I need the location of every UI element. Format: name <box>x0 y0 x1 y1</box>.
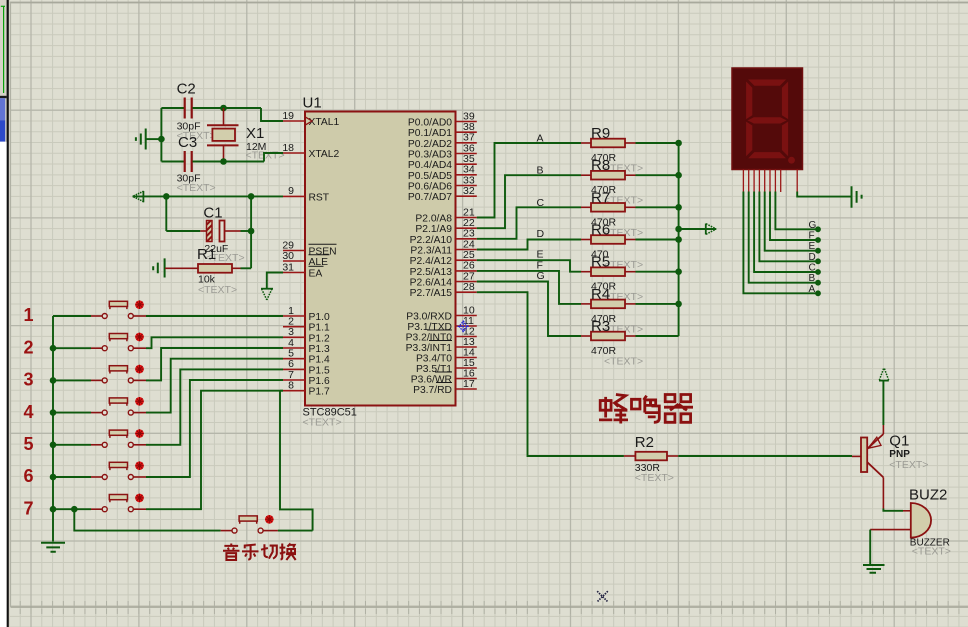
resistor R4 right lead <box>625 303 636 305</box>
svg-text:P3.6/WR: P3.6/WR <box>411 375 452 386</box>
pin 33 P0.6/AD6 stub <box>456 185 477 187</box>
wire bus to button 4 <box>53 412 91 414</box>
pin 16 overline <box>435 371 452 373</box>
sheet border ticks <box>20 601 959 614</box>
svg-text:7: 7 <box>23 498 33 518</box>
wire segment G from pin 27 <box>477 282 581 337</box>
button 5 left lead <box>91 444 102 446</box>
wire gnd to C2/C3 node <box>147 138 162 140</box>
push button SW3 actuator <box>109 366 127 371</box>
svg-text:9: 9 <box>288 185 294 197</box>
svg-text:P0.3/AD3: P0.3/AD3 <box>408 150 452 161</box>
wire button7 to pin7 <box>146 391 283 510</box>
svg-text:A: A <box>537 133 544 145</box>
pin 14 P3.4/T0 stub <box>456 357 477 359</box>
pin 26 P2.5/A13 stub <box>456 270 477 272</box>
svg-text:C1: C1 <box>203 205 222 222</box>
buzzer BUZ2 bottom lead <box>870 529 911 531</box>
pin 22 P2.1/A9 stub <box>456 227 477 229</box>
wire down to C1 left <box>165 196 167 231</box>
svg-text:XTAL2: XTAL2 <box>309 149 340 160</box>
pin 15 P3.5/T1 stub <box>456 367 477 369</box>
push button SW7 contacts <box>102 507 107 512</box>
wire pin28 to R2 <box>477 292 624 456</box>
svg-text:P3.5/T1: P3.5/T1 <box>416 364 452 375</box>
ui white area <box>0 142 7 627</box>
svg-text:P2.4/A12: P2.4/A12 <box>410 256 453 267</box>
7seg segment d <box>747 152 787 159</box>
7seg segment f <box>746 81 753 120</box>
svg-text:28: 28 <box>463 281 475 293</box>
ground (R1 left) <box>153 258 164 277</box>
crystal X1 top plate <box>207 124 239 126</box>
wire button1 to pin1 <box>146 315 283 317</box>
capacitor C1 plate- <box>220 221 225 242</box>
push button SW-music interactive marker <box>265 515 274 524</box>
svg-text:P3.1/TXD: P3.1/TXD <box>407 322 452 333</box>
wire segment B from pin 22 <box>477 175 581 228</box>
7seg pin 2 wire <box>749 192 818 283</box>
wire R9 to bus <box>636 142 679 144</box>
resistor R6 body <box>591 235 625 244</box>
wire bus to button 7 <box>53 508 91 510</box>
push button SW3 contacts <box>102 378 107 383</box>
pin 9 RST stub <box>283 195 305 197</box>
pin 6 P1.5 stub <box>283 368 305 370</box>
svg-text:D: D <box>537 228 545 240</box>
ui overview green box top <box>1 5 5 7</box>
pin 30 ALE stub <box>283 260 305 262</box>
pin 21 P2.0/A8 stub <box>456 217 477 219</box>
svg-text:31: 31 <box>282 261 294 273</box>
ground (button bus) <box>41 543 65 552</box>
button 3 right lead <box>134 379 147 381</box>
svg-text:P2.2/A10: P2.2/A10 <box>410 235 453 246</box>
7seg pin 7 wire <box>775 192 818 230</box>
svg-text:P3.2/INT0: P3.2/INT0 <box>406 333 453 344</box>
resistor R9 body <box>591 139 625 148</box>
crystal X1 bottom plate <box>207 144 239 146</box>
label buzzer char 鸣 <box>632 396 660 423</box>
svg-text:P1.5: P1.5 <box>309 365 330 376</box>
resistor R4 left lead <box>581 303 591 305</box>
music button right lead <box>263 530 278 532</box>
capacitor C2 plates <box>185 98 192 119</box>
svg-text:P2.0/A8: P2.0/A8 <box>415 214 452 225</box>
ui left panel <box>0 0 10 627</box>
output bus junction R8 <box>675 172 682 179</box>
label music-switch char 切 <box>261 544 277 558</box>
push button SW-music contacts <box>232 528 237 533</box>
pin 11 P3.1/TXD stub <box>456 325 477 327</box>
svg-text:<TEXT>: <TEXT> <box>177 182 216 194</box>
pin 4 P1.3 stub <box>283 347 305 349</box>
svg-text:<TEXT>: <TEXT> <box>604 356 643 368</box>
svg-text:R9: R9 <box>591 125 610 142</box>
svg-text:P3.0/RXD: P3.0/RXD <box>406 312 452 323</box>
svg-text:<TEXT>: <TEXT> <box>198 284 237 296</box>
svg-text:C: C <box>537 197 545 209</box>
wire elbow to pin18 <box>264 153 283 162</box>
pin 35 P0.4/AD4 stub <box>456 163 477 165</box>
7seg pin 1 stub <box>742 170 744 192</box>
wire buzzer to ground <box>869 530 871 565</box>
label buzzer char 器 <box>664 395 693 423</box>
capacitor C1 right lead <box>225 230 241 232</box>
svg-text:B: B <box>537 165 544 177</box>
resistor R9 left lead <box>581 142 591 144</box>
label music-switch char 乐 <box>242 545 259 560</box>
node junction RST right <box>248 193 255 200</box>
wire R3 to bus <box>636 335 679 337</box>
push button SW7 interactive marker <box>135 494 144 503</box>
pin 2 P1.1 stub <box>283 326 305 328</box>
svg-text:19: 19 <box>282 110 294 122</box>
resistor R1 left lead <box>165 267 198 269</box>
resistor R3 right lead <box>625 335 636 337</box>
svg-text:P0.4/AD4: P0.4/AD4 <box>408 160 452 171</box>
svg-text:F: F <box>809 231 815 242</box>
node junction RST left <box>163 193 170 200</box>
wire emitter to power <box>882 381 884 425</box>
pin 29 overline <box>309 243 337 245</box>
pin 37 P0.2/AD2 stub <box>456 142 477 144</box>
bus branch junction <box>71 506 78 513</box>
svg-text:5: 5 <box>23 434 33 454</box>
7seg pin 5 wire <box>765 192 818 251</box>
wire bus to button 6 <box>53 476 91 478</box>
wire C3 row left <box>161 161 184 163</box>
wire music button to riser <box>278 530 313 532</box>
svg-text:17: 17 <box>463 378 475 390</box>
svg-text:B: B <box>809 273 816 284</box>
svg-text:30: 30 <box>282 250 294 262</box>
pin 5 P1.4 stub <box>283 358 305 360</box>
terminal dot A <box>815 290 821 296</box>
output bus junction arrow row <box>675 226 682 233</box>
chip U1 STC89C51 body <box>305 112 456 406</box>
pin 39 P0.0/AD0 stub <box>456 121 477 123</box>
output bus junction R6 <box>675 236 682 243</box>
pin 16 P3.6/WR stub <box>456 378 477 380</box>
ui overview green box left <box>3 6 5 93</box>
resistor R2 body <box>635 452 667 461</box>
terminal arrow right V <box>706 224 716 235</box>
svg-text:R3: R3 <box>591 318 610 335</box>
pin 17 P3.7/RD stub <box>456 388 477 390</box>
push button SW4 interactive marker <box>135 397 144 406</box>
resistor R4 body <box>591 300 625 309</box>
pin 34 P0.5/AD5 stub <box>456 174 477 176</box>
push button SW2 contacts <box>102 346 107 351</box>
sheet border bottom <box>11 606 968 608</box>
wire segment F from pin 26 <box>477 271 581 304</box>
wire button2 to pin2 <box>146 337 283 348</box>
wire bus to button 3 <box>53 379 91 381</box>
pin 12 P3.2/INT0 stub <box>456 336 477 338</box>
terminal dot B <box>815 280 821 286</box>
capacitor C1 lead left <box>200 230 206 232</box>
push button SW6 contacts <box>102 475 107 480</box>
button 1 left lead <box>91 315 102 317</box>
wire R4 to bus <box>636 303 679 305</box>
svg-text:6: 6 <box>23 466 33 486</box>
svg-text:P1.2: P1.2 <box>309 333 330 344</box>
svg-text:<TEXT>: <TEXT> <box>912 546 951 558</box>
power terminal arrow <box>879 368 888 381</box>
pin 29 PSEN stub <box>283 250 305 252</box>
left bus vertical <box>52 316 54 542</box>
output bus junction R9 <box>675 140 682 147</box>
7seg pin 1 wire <box>743 192 818 294</box>
svg-text:P2.3/A11: P2.3/A11 <box>410 246 452 257</box>
svg-text:C2: C2 <box>177 81 196 98</box>
svg-text:P3.7/RD: P3.7/RD <box>413 385 452 396</box>
bus junction row 4 <box>50 409 57 416</box>
pin 38 P0.1/AD1 stub <box>456 131 477 133</box>
push button SW3 interactive marker <box>135 365 144 374</box>
pin 19 clock marker <box>305 117 312 125</box>
wire bus to button 5 <box>53 444 91 446</box>
transistor Q1 emitter <box>867 434 883 449</box>
pin 12 overline <box>427 329 452 331</box>
pin 30 overline <box>309 254 330 256</box>
push button SW6 actuator <box>109 462 127 467</box>
svg-text:P2.1/A9: P2.1/A9 <box>415 224 452 235</box>
7seg pin 7 stub <box>774 170 776 192</box>
svg-text:X1: X1 <box>246 125 264 142</box>
pin 36 P0.3/AD3 stub <box>456 153 477 155</box>
push button SW5 contacts <box>102 442 107 447</box>
svg-text:P1.0: P1.0 <box>309 312 330 323</box>
transistor Q1 base bar <box>861 438 867 473</box>
pin 19 XTAL1 stub <box>283 120 305 122</box>
ui panel dark divider <box>7 0 9 627</box>
resistor R6 right lead <box>625 239 636 241</box>
svg-text:P0.7/AD7: P0.7/AD7 <box>408 192 452 203</box>
pin 24 P2.3/A11 stub <box>456 249 477 251</box>
wire C1 to node <box>241 230 252 232</box>
resistor R9 right lead <box>625 142 636 144</box>
button 6 right lead <box>134 476 147 478</box>
button 2 right lead <box>134 347 147 349</box>
pin 17 overline <box>436 382 452 384</box>
wire R7 to bus <box>636 206 679 208</box>
push button SW2 actuator <box>109 334 127 339</box>
wire elbow to pin19 <box>261 108 283 121</box>
7seg decimal point <box>788 157 795 164</box>
7seg display body <box>732 68 803 170</box>
mouse cursor X <box>597 591 608 602</box>
resistor R3 body <box>591 332 625 341</box>
svg-text:A: A <box>809 284 816 295</box>
wire emitter up maroon <box>882 425 884 434</box>
ground (buzzer) <box>863 565 885 573</box>
pin 1 P1.0 stub <box>283 315 305 317</box>
svg-text:R7: R7 <box>591 189 610 206</box>
transistor Q1 collector <box>867 462 883 477</box>
svg-text:C3: C3 <box>178 134 197 151</box>
pin 13 P3.3/INT1 stub <box>456 346 477 348</box>
wire RST row <box>133 195 283 197</box>
crystal X1 bottom lead <box>223 145 225 161</box>
push button SW5 actuator <box>109 430 127 435</box>
wire R8 to bus <box>636 174 679 176</box>
resistor R2 left lead <box>624 455 636 457</box>
transistor Q1 emitter arrow <box>868 437 881 448</box>
svg-text:P3.3/INT1: P3.3/INT1 <box>406 343 453 354</box>
7seg pin 4 stub <box>758 170 760 192</box>
push button SW-music actuator <box>239 516 257 521</box>
push button SW1 contacts <box>102 314 107 319</box>
7seg pin 6 wire <box>770 192 818 241</box>
music button left lead <box>221 530 232 532</box>
origin marker (pin11) <box>458 321 469 333</box>
resistor R8 right lead <box>625 174 636 176</box>
button 7 right lead <box>134 508 147 510</box>
capacitor C1 plate+ (hatched) <box>207 221 213 242</box>
7seg pin 4 wire <box>759 192 818 262</box>
terminal arrow down (EA) V <box>262 289 272 300</box>
node junction XTAL bottom <box>220 158 227 165</box>
svg-text:P2.5/A13: P2.5/A13 <box>410 267 453 278</box>
power terminal bar <box>879 380 889 382</box>
bus junction row 6 <box>50 474 57 481</box>
button 7 left lead <box>91 508 102 510</box>
svg-text:PSEN: PSEN <box>309 247 337 258</box>
7seg pin 3 stub <box>753 170 755 192</box>
bus junction row 2 <box>50 345 57 352</box>
svg-text:32: 32 <box>463 185 475 197</box>
wire segment C from pin 23 <box>477 207 581 239</box>
7seg pin 6 stub <box>769 170 771 192</box>
push button SW4 actuator <box>109 398 127 403</box>
terminal dot C <box>815 269 821 275</box>
terminal dot G <box>815 226 821 232</box>
wire C2 row left <box>161 107 184 109</box>
wire button5 to pin5 <box>146 369 283 444</box>
7seg segment c <box>782 121 789 157</box>
terminal dot F <box>815 237 821 243</box>
svg-text:1: 1 <box>23 305 33 325</box>
svg-text:R5: R5 <box>591 254 610 271</box>
svg-text:G: G <box>809 220 817 231</box>
button 4 right lead <box>134 412 147 414</box>
svg-text:3: 3 <box>23 370 33 390</box>
wire bus branch down <box>74 509 220 530</box>
svg-text:<TEXT>: <TEXT> <box>889 459 928 471</box>
svg-text:EA: EA <box>309 269 323 280</box>
label music-switch char 换 <box>280 544 297 561</box>
wire segment A from pin 21 <box>477 143 581 218</box>
pin 27 P2.6/A14 stub <box>456 281 477 283</box>
terminal arrow left V <box>133 191 144 201</box>
svg-text:P1.1: P1.1 <box>309 323 330 334</box>
wire button3 to pin3 <box>146 348 283 380</box>
button 3 left lead <box>91 379 102 381</box>
push button SW5 interactive marker <box>135 429 144 438</box>
pin 31 overline <box>309 265 324 267</box>
wire to output terminal <box>679 228 716 230</box>
svg-text:P0.5/AD5: P0.5/AD5 <box>408 171 452 182</box>
node junction C1 right <box>248 228 255 235</box>
push button SW1 actuator <box>109 301 127 306</box>
crystal X1 top lead <box>223 108 225 125</box>
svg-text:4: 4 <box>23 402 33 422</box>
wire C2 to node <box>193 107 262 109</box>
svg-text:P0.1/AD1: P0.1/AD1 <box>408 128 452 139</box>
buzzer BUZ2 top lead <box>903 510 911 512</box>
7seg common wire <box>797 192 851 197</box>
wire bus to button 2 <box>53 347 91 349</box>
push button SW4 contacts <box>102 410 107 415</box>
terminal dot D <box>815 258 821 264</box>
sheet border left <box>10 3 12 608</box>
svg-text:R8: R8 <box>591 157 610 174</box>
svg-text:<TEXT>: <TEXT> <box>303 417 342 429</box>
output bus junction R7 <box>675 204 682 211</box>
7seg segment e <box>746 121 753 157</box>
ground (crystal left) <box>136 129 146 150</box>
push button SW2 interactive marker <box>135 333 144 342</box>
button 5 right lead <box>134 444 147 446</box>
label buzzer char 蜂 <box>599 395 628 424</box>
capacitor C3 plates <box>185 151 192 172</box>
button 1 right lead <box>134 315 147 317</box>
svg-text:P1.7: P1.7 <box>309 387 330 398</box>
output bus junction R5 <box>675 268 682 275</box>
bus junction row 3 <box>50 377 57 384</box>
resistor R1 body <box>198 264 232 273</box>
svg-text:Q1: Q1 <box>889 433 909 450</box>
svg-text:P3.4/T0: P3.4/T0 <box>416 354 452 365</box>
7seg pin 5 stub <box>764 170 766 192</box>
7seg pin 2 stub <box>748 170 750 192</box>
resistor R1 right lead <box>232 267 241 269</box>
7seg segment b <box>782 81 789 120</box>
wire vertical RST-C1-R1 <box>250 196 252 268</box>
wire button4 to pin4 <box>146 359 283 413</box>
wire collector green <box>883 509 903 511</box>
svg-text:<TEXT>: <TEXT> <box>246 150 285 162</box>
label music-switch char 音 <box>223 544 240 561</box>
bus junction row 5 <box>50 442 57 449</box>
wire to pin8 <box>280 390 283 392</box>
svg-text:XTAL1: XTAL1 <box>309 117 340 128</box>
push button SW1 interactive marker <box>135 300 144 309</box>
crystal X1 body <box>212 129 235 141</box>
svg-text:P0.0/AD0: P0.0/AD0 <box>408 118 452 129</box>
wire segment E from pin 25 <box>477 260 581 272</box>
svg-text:E: E <box>809 241 816 252</box>
svg-text:8: 8 <box>288 380 294 392</box>
svg-text:G: G <box>537 270 545 282</box>
svg-text:U1: U1 <box>303 95 322 112</box>
svg-text:D: D <box>809 252 816 263</box>
terminal arrow left (RST) <box>142 191 144 202</box>
pin 8 P1.7 stub <box>283 390 305 392</box>
7seg common pin stub <box>796 170 798 192</box>
wire riser music <box>280 391 313 531</box>
wire R1 to vertical <box>241 267 252 269</box>
svg-text:R6: R6 <box>591 222 610 239</box>
wire R2 to Q1 base <box>678 455 852 457</box>
pin 10 P3.0/RXD stub <box>456 315 477 317</box>
wire C1 left lead <box>166 230 200 232</box>
button 4 left lead <box>91 412 102 414</box>
transistor Q1 base lead <box>852 455 862 457</box>
pin 31 EA stub <box>283 272 305 274</box>
